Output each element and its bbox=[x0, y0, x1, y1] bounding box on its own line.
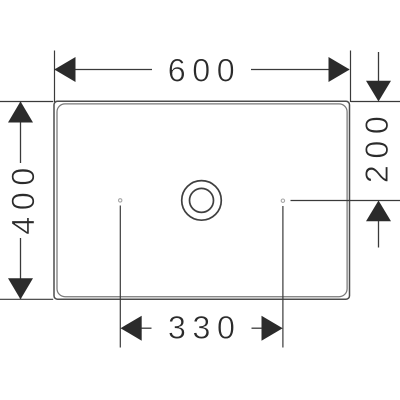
400 dim: line lower segment bbox=[20, 238, 22, 299]
600 dim: right arrowhead bbox=[329, 57, 350, 82]
200 dim: top arrowhead (points down) bbox=[366, 81, 391, 102]
330 dim: value label bbox=[169, 316, 234, 339]
330 dim: right stub line bbox=[252, 327, 262, 329]
330 dim: left extension line bbox=[119, 206, 121, 348]
400 dim: line upper segment bbox=[20, 102, 22, 163]
400 dim: top arrowhead (points up) bbox=[8, 101, 33, 122]
400 dim: bottom arrowhead (points down) bbox=[8, 278, 33, 299]
200 dim: bottom arrowhead (points up) bbox=[366, 201, 391, 222]
330 dim: right extension line bbox=[282, 206, 284, 348]
400 dim: top extension line bbox=[0, 101, 53, 103]
left tap hole bbox=[119, 199, 122, 202]
600 dim: value label bbox=[169, 59, 233, 82]
200 dim: top arrow tail bbox=[378, 52, 380, 81]
400 dim: bottom extension line bbox=[0, 298, 53, 300]
600 dim: line right segment bbox=[251, 69, 349, 71]
200 dim: bottom extension line (from right tap hole) bbox=[291, 200, 400, 202]
330 dim: right arrowhead (points right) bbox=[262, 316, 283, 341]
600 dim: left extension line bbox=[54, 51, 56, 103]
600 dim: left arrowhead bbox=[54, 57, 75, 82]
basin inner rim line bbox=[57, 104, 347, 297]
right tap hole bbox=[281, 199, 284, 202]
330 dim: left stub line bbox=[142, 327, 152, 329]
600 dim: line left segment bbox=[55, 69, 152, 71]
drain inner circle bbox=[190, 188, 214, 212]
400 dim: value label (rotated) bbox=[12, 169, 35, 234]
drain outer circle bbox=[182, 181, 222, 221]
200 dim: bottom arrow tail bbox=[378, 221, 380, 248]
basin outer outline bbox=[54, 101, 350, 299]
600 dim: right extension line bbox=[350, 51, 352, 103]
330 dim: left arrowhead (points left) bbox=[121, 316, 142, 341]
200 dim: value label (rotated) bbox=[365, 117, 388, 181]
200 dim: top extension line bbox=[351, 101, 400, 103]
